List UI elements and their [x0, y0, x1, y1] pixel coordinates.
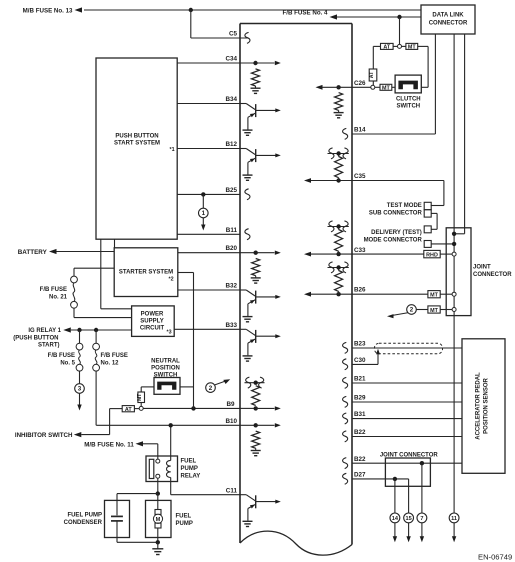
block STARTER SYSTEM box	[114, 248, 178, 297]
box MT (top)	[406, 43, 418, 50]
relay contact plate	[149, 459, 154, 478]
label C5	[229, 31, 238, 38]
svg-text:B23: B23	[354, 341, 366, 348]
svg-text:B21: B21	[354, 376, 366, 383]
svg-text:BATTERY: BATTERY	[18, 249, 48, 256]
node junction B9 in ECM	[254, 406, 258, 410]
wire C26 row	[352, 86, 371, 88]
label JOINT CONNECTOR (right)	[473, 265, 512, 279]
svg-text:C33: C33	[354, 247, 366, 254]
relay terminal bottom	[156, 474, 160, 478]
label M/B FUSE No. 13	[23, 8, 73, 15]
transistor at B12	[240, 149, 281, 181]
arrow to IG relay	[63, 327, 71, 332]
wire push button to starter	[114, 239, 116, 248]
wire pump wire bottom	[157, 528, 159, 542]
label F/B FUSE No. 4	[282, 10, 328, 17]
label F/B FUSE No. 21	[40, 287, 68, 301]
svg-text:MODE CONNECTOR: MODE CONNECTOR	[364, 237, 423, 243]
label C33	[354, 247, 366, 254]
svg-text:C34: C34	[225, 56, 237, 63]
fuse F/B No.5	[76, 343, 83, 371]
wire C33 row to RHD	[352, 253, 424, 255]
wire B9 row	[142, 407, 256, 409]
relay terminal top	[156, 459, 160, 463]
wire F/B fuse No.4 feed	[337, 16, 422, 18]
wire D27 row	[352, 478, 409, 480]
ground at B20	[251, 276, 261, 283]
svg-text:POWER: POWER	[141, 311, 164, 317]
svg-text:RELAY: RELAY	[181, 474, 201, 480]
connector hook C30	[343, 359, 348, 370]
transistor at C11	[240, 495, 281, 527]
relay coil	[167, 456, 171, 481]
motor FUEL PUMP box	[146, 500, 172, 537]
wire drop to circle 13	[408, 479, 410, 513]
pump brush bottom	[155, 523, 161, 528]
node connector circle B9	[139, 406, 143, 410]
wire RHD to joint connector	[440, 253, 452, 255]
svg-text:B10: B10	[225, 418, 237, 425]
connector hook C35 stub right	[343, 148, 348, 159]
label EN-06749	[478, 553, 512, 562]
wire MT2 to joint connector	[440, 309, 452, 311]
connector hook C5	[245, 32, 250, 43]
label *3	[167, 330, 172, 336]
label B32	[225, 283, 237, 290]
resistor at B9	[252, 386, 260, 406]
resistor at C34	[252, 69, 260, 86]
wire IG relay feed	[71, 329, 132, 331]
transistor at B34	[240, 104, 281, 136]
node junction on fuse4 line	[397, 15, 401, 19]
node junction B9 stub	[254, 381, 258, 385]
svg-text:C30: C30	[354, 357, 366, 364]
svg-text:(PUSH BUTTON: (PUSH BUTTON	[13, 335, 58, 341]
svg-text:FUEL PUMP: FUEL PUMP	[67, 513, 102, 519]
svg-text:IG RELAY 1: IG RELAY 1	[28, 328, 61, 334]
label B25	[225, 187, 237, 194]
svg-text:M/B FUSE No. 13: M/B FUSE No. 13	[23, 8, 73, 15]
wire MT box to clutch switch	[392, 86, 395, 88]
shield dashed outline	[375, 343, 443, 353]
wire pump wire top	[157, 494, 159, 510]
box AT (top)	[381, 43, 394, 50]
sensor ACCELERATOR PEDAL POSITION SENSOR box	[462, 339, 505, 474]
svg-text:SWITCH: SWITCH	[396, 104, 420, 110]
svg-text:START SYSTEM: START SYSTEM	[114, 141, 160, 147]
node junction pump ground	[156, 540, 160, 544]
relay FUEL PUMP RELAY box	[146, 456, 178, 482]
arrow from circle 2 (right)	[387, 313, 408, 319]
svg-text:B25: B25	[225, 187, 237, 194]
svg-text:B22: B22	[354, 429, 366, 436]
node junction B22-joint	[420, 461, 424, 465]
wire drop to circle 14	[394, 479, 396, 513]
wire B14 row	[352, 133, 435, 135]
pin test mode sub connector upper	[424, 202, 431, 209]
svg-text:CIRCUIT: CIRCUIT	[140, 325, 165, 331]
svg-text:No. 5: No. 5	[60, 361, 75, 367]
svg-text:M: M	[156, 517, 161, 523]
node junction fuse12	[94, 328, 98, 332]
svg-text:INHIBITOR SWITCH: INHIBITOR SWITCH	[15, 432, 73, 439]
arrow to inhibitor switch	[74, 432, 82, 437]
wire coil top to B10	[170, 425, 172, 456]
svg-text:C35: C35	[354, 173, 366, 180]
arrow to M/B fuse No.11	[136, 441, 144, 446]
svg-text:DATA LINK: DATA LINK	[432, 13, 464, 19]
svg-text:B12: B12	[225, 141, 237, 148]
wire neutral switch left to MT box	[141, 387, 154, 392]
svg-text:3: 3	[78, 386, 82, 393]
wire fuse5 bottom	[79, 371, 81, 384]
wire push button to power supply	[101, 239, 132, 309]
wire B9 pullup stub	[245, 382, 265, 384]
ECM boundary right edge	[351, 24, 353, 545]
box MT (on C26 line)	[380, 84, 392, 91]
label C34	[225, 56, 237, 63]
wire neutral switch right to B9	[180, 386, 194, 388]
label B21	[354, 376, 366, 383]
wire vertical AT box to C26 node	[372, 81, 374, 85]
label D27	[354, 472, 366, 479]
svg-text:*3: *3	[167, 330, 172, 336]
wire delivery connector to joint connector	[431, 243, 454, 245]
reference circle 13	[404, 513, 414, 523]
connector DATA LINK CONNECTOR box	[421, 5, 475, 34]
svg-text:No. 21: No. 21	[49, 295, 68, 301]
wire C34 arrow line	[256, 61, 281, 65]
block PUSH BUTTON START SYSTEM box	[96, 58, 177, 239]
box MT (circle2 row)	[428, 306, 440, 314]
wire B23 row	[352, 347, 462, 349]
svg-text:*1: *1	[170, 147, 175, 153]
arrow from circle 2 (left)	[215, 379, 230, 385]
label *1	[170, 147, 175, 153]
ECM boundary left edge	[239, 24, 241, 544]
wire B12 row	[177, 148, 240, 150]
arrow below circle 7	[420, 523, 424, 543]
svg-text:MT: MT	[430, 308, 438, 314]
node connector circle C33-joint	[452, 252, 456, 256]
clutch switch contact symbol	[398, 81, 418, 90]
ECM boundary torn bottom edge	[240, 531, 352, 555]
svg-text:B9: B9	[226, 401, 235, 408]
wire C11 row	[171, 494, 240, 496]
label C30	[354, 357, 366, 364]
svg-text:15: 15	[405, 516, 411, 522]
label B29	[354, 395, 366, 402]
svg-text:B22: B22	[354, 456, 366, 463]
wire B26 row to MT	[352, 293, 428, 295]
wire B21 row	[352, 382, 462, 384]
node junction pump-condenser	[156, 491, 160, 495]
wire DLC pin 2 drop through joint connector	[453, 34, 455, 513]
arrow below circle 11	[452, 523, 456, 543]
connector hook B26 stub right	[343, 262, 348, 273]
connector hook B21	[343, 377, 348, 388]
wire B32 row	[178, 289, 240, 291]
label BATTERY	[18, 249, 48, 256]
wire B22 second row	[352, 462, 462, 464]
svg-text:MT: MT	[382, 86, 390, 92]
connector hook B11	[245, 229, 250, 240]
resistor network at C33	[304, 224, 352, 256]
label M/B FUSE No. 11	[84, 441, 134, 448]
node junction delivery-joint	[452, 242, 456, 246]
reference circle 2 (right)	[407, 305, 417, 315]
wire battery feed	[57, 251, 115, 253]
capacitor plates	[111, 516, 123, 521]
svg-text:SUPPLY: SUPPLY	[140, 318, 163, 324]
label B9	[226, 401, 235, 408]
svg-text:M/B FUSE No. 11: M/B FUSE No. 11	[84, 441, 134, 448]
wire B29 row	[352, 401, 462, 403]
ground at C34	[251, 86, 261, 93]
box MT (B26 row)	[428, 291, 440, 299]
reference circle 11	[449, 513, 459, 523]
wire AT box to B9 node	[134, 408, 139, 410]
svg-text:B33: B33	[225, 322, 237, 329]
arrow below circle 13	[406, 523, 410, 543]
label B34	[225, 96, 237, 103]
label C35	[354, 173, 366, 180]
label ACCELERATOR PEDAL POSITION SENSOR	[476, 372, 490, 440]
connector hook B31	[343, 413, 348, 424]
wire fuse12 to B10	[95, 371, 97, 426]
svg-text:F/B FUSE: F/B FUSE	[40, 287, 67, 293]
svg-text:14: 14	[392, 516, 399, 522]
resistor at C26	[335, 93, 343, 111]
label B20	[225, 245, 237, 252]
label B11	[226, 227, 238, 234]
wire MT top box to clutch switch right	[418, 46, 428, 87]
wire C26 arrow line	[316, 85, 353, 90]
svg-text:AT: AT	[383, 45, 390, 51]
svg-text:DELIVERY (TEST): DELIVERY (TEST)	[371, 230, 422, 236]
wire MT to joint connector	[440, 293, 452, 295]
resistor network at C35	[304, 151, 352, 183]
pin delivery mode connector upper	[424, 226, 431, 233]
box AT (vertical)	[369, 69, 377, 81]
reference circle 1	[199, 194, 209, 217]
svg-text:1: 1	[202, 210, 206, 217]
resistor at B10	[252, 431, 260, 448]
box AT (inhibitor)	[122, 406, 134, 413]
svg-text:2: 2	[410, 307, 414, 314]
svg-text:ACCELERATOR PEDAL: ACCELERATOR PEDAL	[476, 372, 482, 440]
label B22	[354, 429, 366, 436]
svg-text:TEST MODE: TEST MODE	[387, 203, 422, 209]
svg-text:No. 12: No. 12	[101, 361, 120, 367]
connector hook B29	[343, 396, 348, 407]
wire B20 row	[178, 252, 256, 254]
wire B34 row	[177, 103, 240, 105]
reference circle 3	[75, 384, 85, 394]
svg-text:START): START)	[38, 343, 60, 349]
wire node to MT box	[375, 86, 380, 88]
wire node to AT box	[393, 45, 397, 47]
label B22 (second)	[354, 456, 366, 463]
arrow to F/B fuse No.4	[330, 14, 338, 19]
label TEST MODE SUB CONNECTOR	[369, 203, 423, 216]
wire MT box to B9 node	[140, 403, 142, 407]
resistor network at B26	[304, 265, 352, 296]
label IG RELAY 1 (PUSH BUTTON START)	[13, 328, 61, 348]
wire B20 arrow line	[256, 251, 281, 255]
wire fuse11 feed	[143, 444, 158, 459]
node junction C26 in ECM	[336, 85, 340, 89]
connector hook B22 second	[343, 458, 348, 469]
label STARTER SYSTEM	[119, 269, 173, 275]
connector hook B9 stub right	[259, 377, 264, 388]
svg-text:B34: B34	[225, 96, 237, 103]
fuse F/B No.21	[71, 276, 78, 308]
connector hook B9 stub left	[246, 377, 251, 388]
svg-text:B29: B29	[354, 395, 366, 402]
svg-text:B11: B11	[226, 227, 238, 234]
wire B33 row	[174, 328, 240, 330]
svg-text:MT: MT	[430, 293, 438, 299]
svg-text:PUMP: PUMP	[181, 466, 198, 472]
wire fuse21 bottom	[74, 308, 132, 318]
wire drop to C5	[191, 10, 248, 38]
node junction DLC pin3-joint	[452, 232, 456, 236]
wire B9 arrow line	[256, 406, 281, 410]
transistor at B33	[240, 329, 281, 361]
label C11	[226, 487, 238, 494]
connector JOINT CONNECTOR box (bottom)	[385, 458, 430, 486]
connector JOINT CONNECTOR box (right)	[446, 228, 471, 316]
node junction B9 mid	[191, 406, 195, 410]
resistor at B20	[252, 259, 260, 276]
node junction B25	[201, 192, 205, 196]
svg-text:B20: B20	[225, 245, 237, 252]
wire M/B fuse No.13 feed	[84, 9, 422, 11]
svg-text:2: 2	[209, 385, 213, 392]
wire circle2 to MT box	[417, 309, 428, 311]
label FUEL PUMP RELAY	[181, 459, 201, 480]
ECM boundary top edge	[240, 23, 352, 25]
svg-text:F/B FUSE: F/B FUSE	[48, 353, 75, 359]
label POWER SUPPLY CIRCUIT	[140, 311, 165, 331]
svg-text:SUB CONNECTOR: SUB CONNECTOR	[369, 211, 423, 217]
svg-text:CONDENSER: CONDENSER	[64, 520, 103, 526]
label B31	[354, 411, 366, 418]
arrow to battery	[49, 249, 57, 254]
wire fuse5 top	[79, 330, 81, 344]
wire C30 row	[352, 354, 378, 365]
reference circle 7	[417, 513, 427, 523]
svg-text:FUEL: FUEL	[176, 514, 192, 520]
wire drop from fuse4 line to AT/MT node	[399, 17, 401, 44]
svg-text:AT: AT	[369, 71, 375, 78]
pin delivery mode connector lower	[424, 241, 431, 248]
node connector circle AT/MT top	[398, 44, 402, 48]
svg-text:PUSH BUTTON: PUSH BUTTON	[115, 134, 158, 140]
label B33	[225, 322, 237, 329]
arrow below circle 1	[201, 218, 205, 231]
connector hook B26 stub left	[329, 262, 334, 273]
svg-text:11: 11	[451, 516, 457, 522]
connector hook B25	[245, 189, 250, 200]
svg-text:B32: B32	[225, 283, 237, 290]
reference circle 14	[390, 513, 400, 523]
svg-text:B26: B26	[354, 287, 366, 294]
wire B10 row	[96, 424, 256, 426]
node junction B20	[254, 251, 258, 255]
wire fuse21 top	[74, 268, 114, 276]
label PUSH BUTTON START SYSTEM	[114, 134, 160, 147]
wire starter to B9 vertical	[178, 273, 194, 409]
wire C34 row	[177, 62, 255, 64]
svg-text:POSITION SENSOR: POSITION SENSOR	[484, 378, 490, 434]
arrow below circle 3	[77, 393, 81, 410]
label NEUTRAL POSITION SWITCH	[151, 358, 180, 378]
connector hook C33 stub right	[343, 221, 348, 232]
svg-text:JOINT: JOINT	[473, 265, 491, 271]
svg-text:*2: *2	[169, 277, 174, 283]
switch CLUTCH SWITCH box	[395, 75, 421, 93]
pump brush top	[155, 510, 161, 515]
label FUEL PUMP CONDENSER	[64, 513, 103, 527]
svg-text:PUMP: PUMP	[176, 521, 193, 527]
svg-text:CONNECTOR: CONNECTOR	[473, 272, 512, 278]
wire B11 row	[177, 233, 240, 235]
wire DLC pin 3 drop	[464, 34, 466, 234]
label B23	[354, 341, 366, 348]
wire B25 row	[177, 193, 240, 195]
svg-text:POSITION: POSITION	[151, 365, 180, 371]
svg-text:CLUTCH: CLUTCH	[396, 97, 421, 103]
ground at C26	[334, 110, 344, 117]
label DELIVERY (TEST) MODE CONNECTOR	[364, 230, 423, 243]
svg-text:RHD: RHD	[426, 253, 438, 259]
switch NEUTRAL POSITION SWITCH box	[154, 378, 180, 395]
arrow to M/B fuse No.13	[75, 7, 83, 12]
wire DLC pin 1 drop to B14	[434, 34, 436, 134]
block POWER SUPPLY CIRCUIT box	[132, 306, 175, 337]
connector hook C35 stub left	[329, 148, 334, 159]
svg-text:AT: AT	[125, 407, 132, 413]
connector hook B14	[343, 128, 348, 139]
ground at B10	[251, 448, 261, 455]
label B26	[354, 287, 366, 294]
wire B31 row	[352, 418, 462, 420]
svg-text:MT: MT	[137, 394, 143, 401]
transistor at B32	[240, 290, 281, 322]
label F/B FUSE No. 12	[101, 353, 128, 367]
wire relay contact to pump	[157, 478, 159, 493]
svg-text:CONNECTOR: CONNECTOR	[429, 21, 468, 27]
wire drop to circle 7	[421, 463, 423, 513]
label FUEL PUMP	[176, 514, 193, 528]
label CLUTCH SWITCH	[396, 97, 421, 110]
svg-text:NEUTRAL: NEUTRAL	[151, 358, 180, 364]
node junction D27-joint	[393, 477, 397, 481]
wire B22 row	[352, 436, 462, 438]
connector hook D27	[343, 473, 348, 484]
label *2	[169, 277, 174, 283]
svg-text:STARTER SYSTEM: STARTER SYSTEM	[119, 269, 173, 275]
node junction on fuse13 line	[189, 8, 193, 12]
label JOINT CONNECTOR (bottom)	[380, 453, 439, 459]
svg-text:C26: C26	[354, 80, 366, 87]
arrow C30 to shield	[376, 349, 380, 355]
neutral position switch contact symbol	[157, 382, 176, 390]
ground fuel pump	[152, 542, 163, 554]
